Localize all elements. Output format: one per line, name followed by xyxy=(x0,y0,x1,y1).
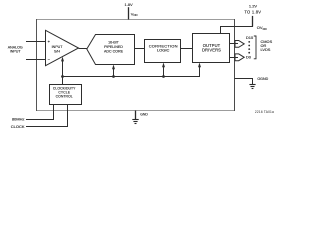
svg-text:CLOCK: CLOCK xyxy=(11,124,25,129)
wire ADC core to correction logic xyxy=(135,48,145,50)
chip outline xyxy=(37,19,235,111)
svg-text:1.8V: 1.8V xyxy=(124,2,133,7)
svg-text:OVDD: OVDD xyxy=(257,25,267,31)
svg-text:CONTROL: CONTROL xyxy=(56,95,73,99)
output bus arrow D0 xyxy=(235,54,244,61)
junction node xyxy=(162,75,165,78)
ground GND xyxy=(132,119,138,121)
svg-text:OGND: OGND xyxy=(257,77,268,81)
output bus arrow D15 xyxy=(235,41,244,48)
svg-text:ADC CORE: ADC CORE xyxy=(104,49,124,53)
svg-text:LVDS: LVDS xyxy=(261,47,271,52)
wire clock control to S/H xyxy=(62,60,64,85)
wire D15 stem xyxy=(230,43,239,45)
op-amp input S/H xyxy=(46,30,79,65)
wire clock to ADC core xyxy=(113,67,115,77)
svg-text:D15: D15 xyxy=(246,35,254,40)
clock distribution wire xyxy=(62,76,200,78)
wire OVDD to output drivers xyxy=(221,27,254,35)
svg-text:INPUT: INPUT xyxy=(10,50,22,54)
output drivers block xyxy=(193,34,230,63)
wire CLOCK input xyxy=(26,105,68,127)
svg-text:VDD: VDD xyxy=(131,11,138,17)
svg-text:S/H: S/H xyxy=(54,49,60,53)
wire 80MHz clock input xyxy=(26,105,54,120)
ADC core block xyxy=(87,35,135,65)
arrowhead into S/H xyxy=(61,57,64,62)
wire OGND xyxy=(235,79,253,85)
junction node xyxy=(112,75,115,78)
bracket xyxy=(254,36,256,59)
wire clock to correction logic xyxy=(163,65,165,77)
svg-text:ANALOG: ANALOG xyxy=(8,45,23,49)
svg-text:1.2V: 1.2V xyxy=(249,3,258,8)
wire S/H to ADC core xyxy=(79,48,89,50)
svg-text:2216 TA01a: 2216 TA01a xyxy=(255,110,274,114)
wire correction logic to output drivers xyxy=(181,48,193,50)
svg-text:GND: GND xyxy=(140,112,148,116)
svg-text:INPUT: INPUT xyxy=(52,45,64,49)
junction node xyxy=(61,75,64,78)
svg-text:DRIVERS: DRIVERS xyxy=(202,47,221,52)
wire analog input - xyxy=(26,59,46,61)
svg-text:16-BIT: 16-BIT xyxy=(108,40,120,44)
wire clock to output drivers xyxy=(199,65,201,78)
VDD pin tick xyxy=(128,7,130,19)
svg-text:80MHz: 80MHz xyxy=(12,117,25,122)
correction logic block xyxy=(145,40,181,63)
svg-text:LOGIC: LOGIC xyxy=(157,48,170,53)
svg-text:D0: D0 xyxy=(246,55,252,60)
arrowhead into correction logic xyxy=(162,63,165,68)
ground OGND xyxy=(249,84,255,86)
arrowhead into output drivers xyxy=(198,63,201,68)
clock duty cycle control block xyxy=(50,85,82,105)
GND pin tick xyxy=(135,111,137,120)
ellipsis dots xyxy=(248,41,250,43)
svg-text:PIPELINED: PIPELINED xyxy=(104,45,123,49)
arrowhead into ADC core xyxy=(112,65,115,70)
wire D0 stem xyxy=(230,57,239,59)
svg-text:TO 1.8V: TO 1.8V xyxy=(244,10,261,15)
wire analog input + xyxy=(26,41,46,43)
OVDD pin tick xyxy=(252,16,254,27)
